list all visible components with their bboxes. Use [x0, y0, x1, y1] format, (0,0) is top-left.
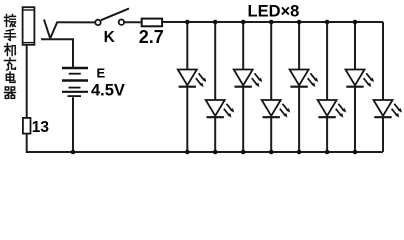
top bus wire: [162, 21, 383, 23]
器: [5, 87, 16, 98]
wire switch to resistor 2.7: [124, 21, 142, 23]
LED D8 (lower, right edge): [374, 22, 403, 152]
LED D7 (upper): [346, 22, 375, 152]
svg-text:13: 13: [32, 119, 50, 136]
battery E 4.5V: [62, 68, 88, 96]
svg-text:E: E: [97, 66, 106, 81]
LED D2 (lower): [206, 22, 235, 152]
wire charger to resistor 13: [26, 45, 28, 118]
label 接手机充电器 (vertical): [5, 15, 16, 99]
svg-text:LED×8: LED×8: [248, 3, 300, 21]
充: [5, 58, 16, 70]
resistor R 2.7: [142, 19, 162, 27]
LED D3 (upper): [234, 22, 263, 152]
LED D4 (lower): [262, 22, 291, 152]
LED D5 (upper): [290, 22, 319, 152]
机: [5, 44, 16, 56]
wire resistor 13 to bottom bus: [27, 134, 30, 152]
junction dots bottom bus: [71, 150, 358, 155]
resistor 13: [23, 118, 31, 134]
svg-text:2.7: 2.7: [139, 27, 164, 47]
LED D1 (upper): [178, 22, 207, 152]
电: [6, 72, 15, 82]
junction dots top bus: [185, 20, 357, 25]
LED D6 (lower): [318, 22, 347, 152]
wire plug to switch: [57, 21, 96, 23]
接: [5, 15, 16, 27]
plug connector V: [44, 20, 57, 39]
svg-text:4.5V: 4.5V: [91, 82, 125, 100]
wire plug baseline to battery top: [41, 39, 73, 67]
svg-text:K: K: [104, 29, 116, 46]
switch K: [95, 9, 129, 26]
wire battery to bottom bus: [72, 97, 74, 152]
charger port (USB plug rectangle): [23, 7, 35, 45]
手: [5, 29, 16, 40]
bottom bus wire: [27, 151, 383, 153]
